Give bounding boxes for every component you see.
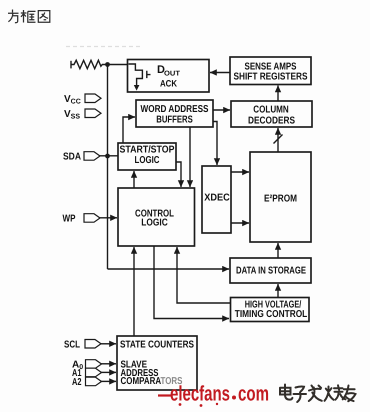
block: DATA IN STORAGE xyxy=(230,258,311,283)
svg-text:BUFFERS: BUFFERS xyxy=(156,114,193,125)
pin A0 xyxy=(72,360,116,372)
pull-up resistor on SDA xyxy=(71,60,128,68)
svg-text:LOGIC: LOGIC xyxy=(135,155,160,166)
svg-text:elecfans: elecfans xyxy=(170,383,230,406)
svg-text:XDEC: XDEC xyxy=(204,193,230,204)
block: CONTROL LOGIC xyxy=(118,188,195,246)
wire: HIGH VOLTAGE left to CONTROL LOGIC bottom (arrow up) xyxy=(177,247,230,303)
pin VCC xyxy=(64,94,101,106)
pin A1 xyxy=(72,368,116,379)
svg-text:SHIFT REGISTERS: SHIFT REGISTERS xyxy=(234,71,308,82)
wire: CONTROL LOGIC bottom to HIGH VOLTAGE left (arrow right) xyxy=(154,246,229,319)
block: COLUMN DECODERS xyxy=(231,101,312,127)
wire: START/STOP right to CONTROL LOGIC top (arrow down) xyxy=(176,162,181,187)
svg-text:TIMING CONTROL: TIMING CONTROL xyxy=(235,309,308,320)
wire: HIGH VOLTAGE top to DATA IN STORAGE bottom (arrow up) xyxy=(277,284,279,299)
wire: XDEC to E2PROM lower (arrow right) xyxy=(231,222,249,224)
wire: E2PROM top to COLUMN DECODERS bottom (arrow up) xyxy=(277,128,279,152)
wire: WORD ADDRESS BUFFERS bottom to CONTROL LOGIC top (arrow down) xyxy=(189,127,191,187)
watermark elecfans.com logo xyxy=(158,383,269,407)
svg-text:SDA: SDA xyxy=(63,152,81,163)
wire: COLUMN DECODERS to SENSE AMPS (arrow up) xyxy=(277,86,279,102)
wire: START/STOP top to WORD ADDRESS BUFFERS left (arrow right) xyxy=(123,117,135,143)
wire: WORD ADDRESS BUFFERS to COLUMN DECODERS (arrow right) xyxy=(213,109,230,111)
block: HIGH VOLTAGE / TIMING CONTROL xyxy=(231,298,310,322)
pin WP xyxy=(63,214,118,225)
svg-text:STATE COUNTERS: STATE COUNTERS xyxy=(120,340,194,351)
block: START/STOP LOGIC xyxy=(118,143,176,170)
pin SCL xyxy=(64,339,116,350)
pin VSS xyxy=(64,109,101,121)
transistor Q1: output MOSFET xyxy=(129,64,151,91)
svg-text:OUT: OUT xyxy=(164,71,181,78)
svg-text:START/STOP: START/STOP xyxy=(120,144,175,155)
wire: WORD ADDRESS BUFFERS right to XDEC top (arrow down) xyxy=(213,122,217,166)
block: XDEC xyxy=(202,166,231,233)
block: SENSE AMPS / SHIFT REGISTERS xyxy=(230,57,311,85)
svg-text:SCL: SCL xyxy=(64,339,80,350)
svg-text:WP: WP xyxy=(63,214,76,225)
title 方框图 (block diagram) xyxy=(8,10,50,23)
wire: SENSE AMPS to DOUT/ACK (arrow left) xyxy=(210,72,230,74)
wire: SDA bus to DATA IN STORAGE xyxy=(108,268,230,270)
svg-text:LOGIC: LOGIC xyxy=(141,217,168,228)
wire: CONTROL LOGIC top to START/STOP bottom (arrow up) xyxy=(133,171,135,188)
svg-text:COLUMN: COLUMN xyxy=(253,105,289,116)
faint dashed artifact line xyxy=(66,46,142,48)
block: STATE COUNTERS / SLAVE ADDRESS COMPARATORS xyxy=(117,336,197,390)
svg-text:ACK: ACK xyxy=(160,78,177,88)
node: resistor/SDA junction dot xyxy=(105,62,110,67)
svg-text:com: com xyxy=(238,383,269,406)
svg-text:A2: A2 xyxy=(72,377,82,388)
block: WORD ADDRESS BUFFERS xyxy=(136,100,213,127)
wire: STATE COUNTERS top to CONTROL LOGIC bottom (arrow up) xyxy=(133,247,135,336)
wire: XDEC to E2PROM upper (arrow right) xyxy=(231,171,249,173)
svg-text:E²PROM: E²PROM xyxy=(264,193,297,204)
bus slash marker xyxy=(274,135,283,144)
block: E2PROM array xyxy=(250,152,311,242)
node: SDA pin junction dot xyxy=(105,154,110,159)
wire: SDA vertical bus xyxy=(107,65,109,270)
watermark 电子发烧友 calligraphy xyxy=(280,385,356,403)
pin A2 xyxy=(72,377,116,388)
svg-text:WORD ADDRESS: WORD ADDRESS xyxy=(141,104,209,115)
block U1: DOUT/ACK output driver xyxy=(128,60,210,93)
pin SDA xyxy=(63,152,118,163)
wire: DATA IN STORAGE top to E2PROM bottom (arrow up) xyxy=(277,243,279,258)
svg-text:DATA IN STORAGE: DATA IN STORAGE xyxy=(236,266,306,277)
svg-text:DECODERS: DECODERS xyxy=(248,115,295,126)
